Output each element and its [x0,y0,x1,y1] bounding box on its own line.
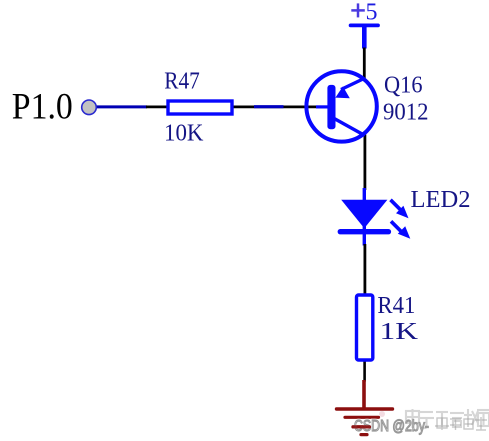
svg-text:10K: 10K [164,119,204,146]
svg-text:1K: 1K [380,318,419,345]
svg-text:5: 5 [366,0,378,25]
svg-text:LED2: LED2 [411,186,471,213]
svg-text:9012: 9012 [383,99,429,126]
svg-text:P1.0: P1.0 [12,87,73,128]
svg-text:Q16: Q16 [384,72,423,99]
svg-text:R47: R47 [164,68,200,95]
svg-text:R41: R41 [377,292,415,319]
